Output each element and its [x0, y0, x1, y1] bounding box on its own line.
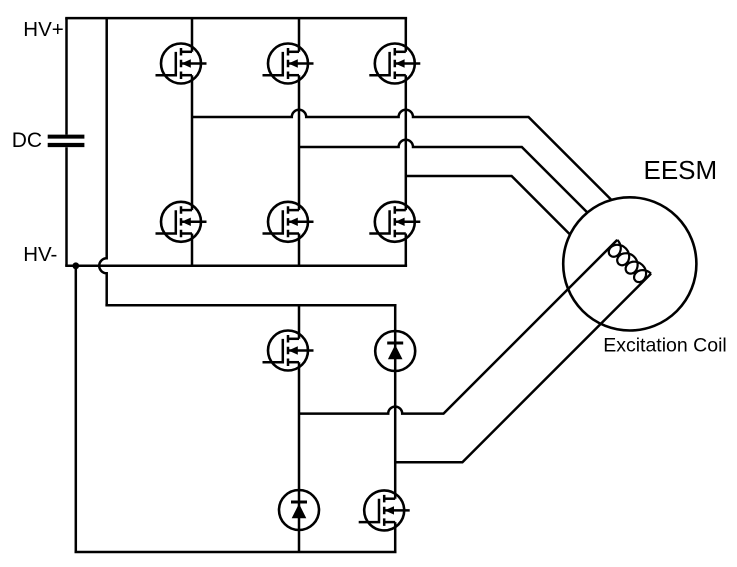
- wire HV+ feed to excitation bridge (hop over HV- bus): [99, 18, 106, 305]
- transistor Q4 (phase B low): [263, 202, 314, 242]
- wire excitation bridge right leg: [394, 305, 397, 552]
- wire inverter leg 2: [298, 18, 301, 266]
- wire HV- bus: [65, 265, 407, 268]
- wire phase C output: [406, 176, 570, 235]
- svg-text:DC: DC: [12, 129, 42, 152]
- svg-text:HV+: HV+: [23, 18, 63, 41]
- motor circle EESM: [563, 197, 696, 330]
- wire HV+ bus: [65, 17, 407, 20]
- node junction HV-: [72, 262, 79, 269]
- diode D2 (excitation bottom left): [279, 490, 319, 530]
- svg-text:Excitation Coil: Excitation Coil: [603, 334, 727, 356]
- wire phase B output (hop over leg 3): [299, 140, 587, 213]
- transistor Q6 (phase C low): [369, 202, 420, 242]
- wire phase A output (hops over legs 2,3): [192, 110, 612, 200]
- wire inverter leg 3: [405, 18, 408, 266]
- transistor Q7 (excitation high side): [263, 331, 314, 371]
- wire excitation bridge left leg: [298, 305, 301, 552]
- inductor excitation coil: [606, 240, 651, 285]
- transistor Q8 (excitation low side): [359, 490, 410, 530]
- transistor Q1 (phase A high): [156, 44, 207, 84]
- transistor Q5 (phase C high): [369, 44, 420, 84]
- capacitor DC: [48, 18, 85, 266]
- svg-text:EESM: EESM: [644, 155, 718, 185]
- transistor Q2 (phase A low): [156, 202, 207, 242]
- wire excitation output 1 (mid rail, hop over right leg, to coil): [299, 240, 617, 414]
- wire excitation bridge top rail: [105, 304, 396, 307]
- wire excitation output 2 (to coil): [395, 274, 651, 463]
- wire HV- left drop: [75, 266, 78, 552]
- wire excitation bridge bottom rail: [75, 551, 397, 554]
- wire inverter leg 1: [191, 18, 194, 266]
- svg-text:HV-: HV-: [23, 243, 57, 266]
- transistor Q3 (phase B high): [263, 44, 314, 84]
- diode D1 (excitation top right): [375, 331, 415, 371]
